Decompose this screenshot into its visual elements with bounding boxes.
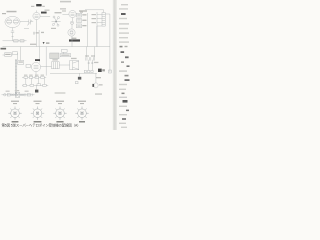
dark blob above chain end	[35, 90, 38, 93]
tube V1 6W-C5	[33, 12, 40, 19]
socket S3 label	[56, 121, 63, 123]
wire osc to V1	[40, 16, 50, 18]
end arc	[31, 93, 34, 96]
resistor network row1	[24, 76, 28, 78]
V4 label	[35, 59, 40, 61]
socket S2 label	[34, 121, 42, 123]
socket S1 top marks	[11, 101, 19, 105]
power transformer small	[16, 92, 20, 97]
switch circles	[11, 94, 13, 96]
V1 top lead	[36, 10, 38, 12]
audio lower bus	[50, 72, 97, 74]
top bus wire	[85, 10, 104, 13]
speaker	[70, 61, 79, 70]
coil taps	[97, 15, 102, 27]
resistor box row left	[5, 53, 12, 56]
socket S2 top marks	[34, 101, 42, 105]
V3 label below	[71, 38, 76, 39]
main bus	[3, 46, 110, 48]
coil section left	[7, 19, 12, 24]
end box	[27, 94, 30, 96]
grid stopper wire	[24, 27, 29, 29]
V2 top labels	[60, 8, 83, 13]
paper background	[0, 0, 130, 130]
osc label	[51, 12, 62, 29]
IFT stack box1	[77, 13, 82, 17]
grid leak vertical	[38, 30, 40, 47]
capacitor below antenna	[11, 31, 14, 32]
cap bars	[25, 93, 26, 96]
socket S2	[31, 107, 44, 120]
interstage node circle	[70, 21, 73, 24]
vertical wire right of IFT	[87, 13, 89, 47]
wire ant to tuning cap	[20, 21, 29, 23]
wire V2 left	[62, 14, 69, 16]
left tap rail	[96, 12, 98, 47]
labels above chain	[6, 90, 29, 92]
header faint text	[45, 1, 72, 11]
socket S3	[53, 107, 66, 120]
right rail	[109, 14, 111, 72]
tube V4	[31, 62, 40, 71]
coupling cap	[33, 32, 34, 35]
V1 cathode drop	[36, 20, 38, 47]
junction triangle	[43, 42, 45, 44]
mid verticals	[40, 26, 97, 76]
oscillator coil switch	[52, 16, 61, 26]
title text block	[36, 4, 41, 6]
label antenna	[2, 11, 17, 14]
inter-row verticals	[26, 78, 45, 84]
socket S4 top marks	[78, 101, 86, 105]
left dark label	[1, 48, 7, 50]
IFT stack box3	[77, 24, 82, 28]
dark label 6ZDH3A	[69, 39, 80, 41]
wires audio	[41, 65, 70, 67]
small comp row	[84, 70, 86, 72]
dark block	[98, 69, 102, 72]
verticals to comp row	[89, 60, 93, 71]
cap labels	[36, 32, 44, 34]
dark small comp	[78, 77, 81, 80]
resistor network row2	[23, 84, 27, 86]
faint dashed label right of chain	[55, 92, 66, 93]
wire cap to V1	[31, 21, 34, 23]
boxes mid	[62, 49, 68, 52]
AVC comp 2	[20, 40, 24, 42]
svg-text:第5図 5球スーパーヘテロダイン受信機の配線図（A）: 第5図 5球スーパーヘテロダイン受信機の配線図（A）	[2, 122, 81, 127]
antenna choke coil	[102, 13, 105, 27]
socket S1 label	[12, 121, 19, 123]
wires left block	[3, 47, 21, 61]
socket S4 label	[79, 121, 85, 123]
socket S4	[75, 107, 88, 120]
electrolytic cap	[94, 83, 98, 88]
tube V3	[68, 29, 75, 36]
socket S3 top marks	[56, 101, 64, 105]
wire antenna cap to AVC line	[12, 32, 14, 40]
faint text under electrolytic	[95, 93, 102, 94]
V1 label	[41, 12, 47, 14]
tube sockets row	[8, 101, 88, 123]
pot top box	[18, 60, 24, 64]
power chain wire	[2, 94, 35, 96]
ground tick	[11, 36, 13, 38]
V4 left box	[26, 64, 30, 67]
right column text	[119, 4, 130, 128]
B+ comp on rail	[109, 70, 112, 73]
fuse box	[7, 94, 10, 96]
AVC comp 1	[14, 40, 19, 42]
caps above small	[88, 62, 94, 63]
antenna coil ellipse	[5, 16, 20, 27]
socket S1	[8, 107, 21, 120]
IFT stack box2	[77, 19, 82, 23]
page gutter band	[113, 0, 117, 130]
lamp circles	[20, 94, 22, 96]
IFT labels	[79, 10, 87, 26]
output transformer	[52, 62, 60, 69]
wire ant down	[12, 28, 14, 31]
volume pot tall bar	[15, 59, 16, 96]
tuning capacitor	[27, 20, 32, 26]
V4 bottom lead	[35, 72, 37, 78]
gray block component	[50, 53, 59, 59]
cap row right-mid	[86, 57, 95, 60]
coil labels	[92, 14, 97, 23]
wires between V2 V3	[71, 18, 74, 29]
AVC line upper	[3, 40, 27, 42]
plug circle	[4, 94, 6, 96]
tube V2 top	[69, 10, 76, 17]
coil section right	[13, 19, 18, 24]
